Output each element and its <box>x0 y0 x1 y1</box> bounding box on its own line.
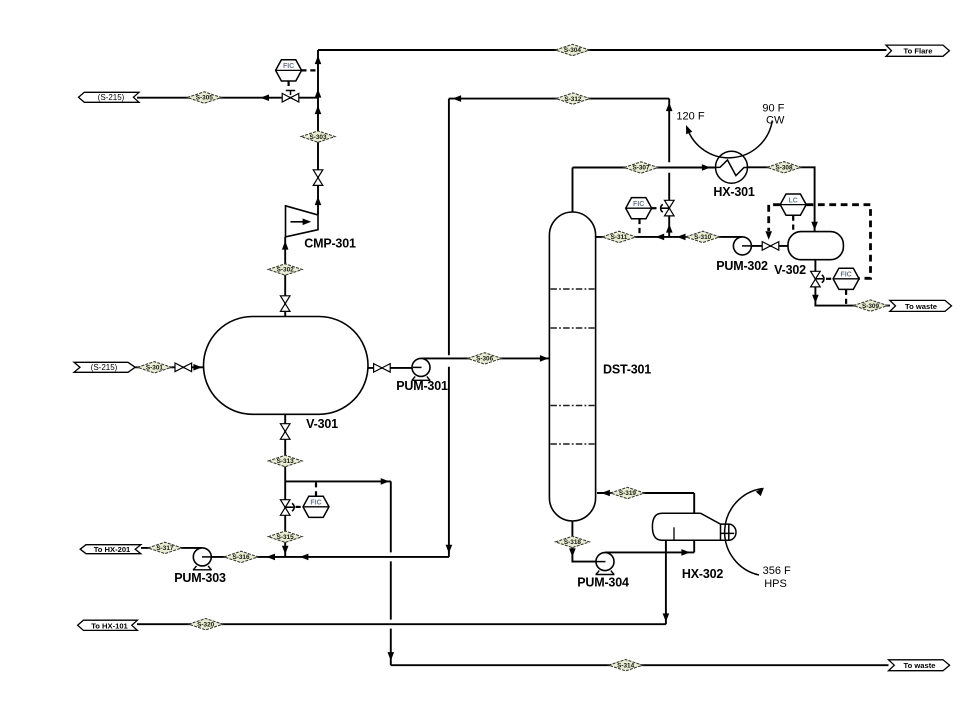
column DST-301 <box>549 212 595 521</box>
open arrow FIC to recycle valve <box>661 204 670 212</box>
arrow down into V-302 <box>811 222 818 231</box>
instrument FIC V-302 drain <box>833 268 859 289</box>
wire S-308 line HX-301 to V-302 <box>747 167 814 232</box>
signal FIC tap on reflux line <box>638 219 640 236</box>
node S-305 <box>187 92 221 103</box>
node S-304 <box>555 44 589 55</box>
svg-text:S-315: S-315 <box>277 534 294 541</box>
svg-text:To HX-101: To HX-101 <box>91 621 128 630</box>
node S-306 <box>468 353 502 364</box>
arrow up above purge junction <box>315 89 322 98</box>
svg-text:S-310: S-310 <box>694 234 711 241</box>
label V-302 <box>774 263 806 277</box>
wire recycle downpipe x=390.8 <box>390 481 392 665</box>
valve on V-301 bottom <box>280 424 290 440</box>
wire S-312 recycle header <box>449 98 669 100</box>
node To HX-101 flag <box>78 620 138 630</box>
node S-320 <box>189 619 223 630</box>
node S-310 <box>686 231 720 242</box>
svg-text:PUM-302: PUM-302 <box>716 259 768 273</box>
valve on bottoms line <box>280 500 290 516</box>
svg-text:PUM-304: PUM-304 <box>577 575 629 589</box>
label PUM-302 <box>716 259 768 273</box>
wire V-302 bottom to waste <box>815 260 890 306</box>
label PUM-303 <box>174 571 226 585</box>
signal LC tap on V-302 <box>792 216 794 231</box>
pump PUM-302 <box>733 237 751 255</box>
svg-text:FIC: FIC <box>840 272 851 279</box>
pump PUM-301 <box>412 358 431 380</box>
arrow left after S-310 <box>677 234 686 241</box>
svg-text:S-303: S-303 <box>309 134 326 141</box>
node S-301 <box>137 362 171 373</box>
wire reboiler riser lower <box>693 540 695 552</box>
node S-302 <box>268 264 302 275</box>
pump PUM-303 <box>193 548 212 570</box>
arrow down below S-318 <box>569 548 576 557</box>
svg-text:To waste: To waste <box>904 661 936 670</box>
wire distillate recycle vertical x=669.2 <box>668 99 670 237</box>
signal LC cascade to FIC <box>807 205 871 279</box>
svg-text:V-301: V-301 <box>306 417 338 431</box>
node To Flare flag <box>886 45 949 56</box>
signal FIC tap on S-309 line <box>845 290 847 305</box>
vessel V-301 <box>204 317 369 415</box>
reboiler HX-302 <box>652 513 736 540</box>
valve on S-303 line <box>313 170 323 186</box>
node S-303 <box>301 131 335 142</box>
arrow down onto S-309 corner <box>812 295 819 304</box>
arrow up below recycle valve <box>666 224 673 233</box>
node S-307 <box>624 162 658 173</box>
arrow left on purge line <box>260 94 269 101</box>
svg-text:To Flare: To Flare <box>904 47 933 56</box>
pump PUM-304 <box>596 553 615 575</box>
arrow right into V-301 <box>193 364 202 371</box>
svg-text:HX-301: HX-301 <box>713 185 754 199</box>
valve on V-301 outlet <box>374 364 391 373</box>
svg-text:DST-301: DST-301 <box>603 363 651 377</box>
wire reboiler riser upper <box>693 493 695 514</box>
valve on V-301 inlet <box>175 363 192 372</box>
node (S-215) feed flag <box>74 362 135 372</box>
signal LC to V-302 inlet valve <box>769 205 780 231</box>
valve on V-302 drain <box>811 271 821 287</box>
node S-317 <box>148 542 182 553</box>
label 356 F <box>763 565 791 577</box>
svg-text:PUM-301: PUM-301 <box>396 379 448 393</box>
svg-text:S-306: S-306 <box>476 356 493 363</box>
node S-314 <box>609 660 643 671</box>
svg-text:S-307: S-307 <box>632 165 649 172</box>
arrow down LC signal onto valve <box>765 231 772 240</box>
instrument FIC bottoms <box>303 496 329 517</box>
valve on V-302 inlet <box>762 242 779 251</box>
svg-text:(S-215): (S-215) <box>98 93 125 102</box>
svg-text:S-313: S-313 <box>277 458 294 465</box>
node S-311 <box>602 231 636 242</box>
instrument FIC purge <box>276 60 302 81</box>
arrow left on reflux line mid <box>656 234 665 241</box>
valve on S-302 line <box>280 296 290 312</box>
svg-text:CMP-301: CMP-301 <box>304 237 356 251</box>
wire V-302 outlet to PUM-302 <box>742 245 788 247</box>
svg-text:LC: LC <box>789 197 798 204</box>
svg-text:S-301: S-301 <box>146 365 163 372</box>
label PUM-304 <box>577 575 629 589</box>
signal FIC to V-302 drain valve <box>826 278 833 280</box>
node S-312 <box>556 93 590 104</box>
svg-text:S-309: S-309 <box>862 303 879 310</box>
signal FIC tap on branch line <box>315 482 317 496</box>
valve on distillate recycle <box>665 200 675 216</box>
arrow right on PUM-304 discharge <box>681 549 690 556</box>
node To HX-201 flag <box>80 545 141 555</box>
svg-text:(S-215): (S-215) <box>91 363 118 372</box>
svg-text:S-318: S-318 <box>564 539 581 546</box>
wire to-flare header <box>318 49 887 51</box>
column trays <box>550 289 594 444</box>
wire S-319 vapor return line <box>597 492 694 494</box>
HX-301 cooling water arc <box>683 121 772 158</box>
node S-318 <box>555 536 589 547</box>
signal FIC to purge valve actuator <box>288 81 290 87</box>
label HPS <box>764 578 787 590</box>
arrow down HX-302 outlet <box>663 613 670 622</box>
DASHED INSTRUMENT SIGNALS <box>289 70 847 507</box>
wire column overhead pipe <box>572 168 574 213</box>
wire PUM-301 discharge / S-306 feed line to column <box>421 357 549 359</box>
node S-309 <box>854 300 888 311</box>
node S-316 <box>224 551 258 562</box>
svg-text:120 F: 120 F <box>676 111 704 123</box>
svg-text:CW: CW <box>766 115 785 127</box>
svg-text:356 F: 356 F <box>763 565 791 577</box>
arrow down S-312 downcomer end <box>446 545 453 554</box>
wire S-307 overhead line to HX-301 <box>573 167 717 169</box>
wire bottoms drop to pump line <box>284 481 286 557</box>
arrow up below purge junction <box>315 106 322 115</box>
node S-313 <box>268 455 302 466</box>
svg-text:FIC: FIC <box>310 500 321 507</box>
wire PUM-303 discharge to HX-201 <box>141 547 202 549</box>
wire main vertical riser x=318 <box>317 50 319 215</box>
svg-text:S-317: S-317 <box>156 545 173 552</box>
svg-text:S-319: S-319 <box>619 490 636 497</box>
svg-text:HPS: HPS <box>764 578 787 590</box>
svg-text:S-302: S-302 <box>277 267 294 274</box>
wire S-312 downcomer x=448.9 <box>448 99 450 557</box>
wire purge line to (S-215) <box>137 97 318 99</box>
arrow right on branch line <box>381 478 390 485</box>
node S-315 <box>268 531 302 542</box>
open arrow FIC to bottoms valve <box>285 503 294 511</box>
HX-302 steam arc <box>725 485 767 575</box>
node To waste flag lower <box>889 660 950 671</box>
arrow left on S-312 header <box>453 95 462 102</box>
label CW <box>766 115 785 127</box>
label PUM-301 <box>396 379 448 393</box>
node S-319 <box>610 487 644 498</box>
node To waste flag upper <box>890 300 952 311</box>
wire column bottoms to PUM-304 <box>572 521 605 562</box>
svg-text:S-320: S-320 <box>197 621 214 628</box>
arrow up below flare corner <box>315 56 322 65</box>
svg-text:FIC: FIC <box>633 201 644 208</box>
label 90 F <box>762 103 784 115</box>
svg-text:HX-302: HX-302 <box>682 567 723 581</box>
signal FIC to distillate recycle valve <box>651 207 659 209</box>
svg-text:S-305: S-305 <box>196 95 213 102</box>
signal FIC to bottoms valve dash <box>296 506 304 508</box>
label 120 F <box>676 111 704 123</box>
arrow left into column S-319 <box>601 490 610 497</box>
arrow up into S-312 header <box>666 103 673 112</box>
wire compressor suction from V-301 top <box>284 237 286 317</box>
wire reflux line S-311 S-310 <box>596 236 742 238</box>
wire branch to recycle downpipe <box>285 480 391 482</box>
wire PUM-304 discharge <box>605 551 694 553</box>
signal FIC to purge vertical line <box>301 69 316 71</box>
heat exchanger HX-301 <box>715 151 747 183</box>
ARROWS <box>193 56 824 661</box>
vessel V-302 <box>788 232 843 260</box>
arrow left on bottoms line east <box>300 554 309 561</box>
arrow up above S-303 valve gap <box>315 197 322 206</box>
wire bottoms line to PUM-303 <box>202 556 449 558</box>
wire S-320 line to HX-101 <box>137 623 666 625</box>
svg-text:S-316: S-316 <box>232 554 249 561</box>
svg-text:S-311: S-311 <box>611 234 628 241</box>
arrow down onto S-314 corner <box>388 652 395 661</box>
svg-text:V-302: V-302 <box>774 263 806 277</box>
compressor CMP-301 <box>286 206 319 237</box>
label V-301 <box>306 417 338 431</box>
arrow left on bottoms line <box>266 554 275 561</box>
arrow right into HX-301 <box>702 164 711 171</box>
arrow up below compressor <box>282 241 289 250</box>
wire HX-302 liquid outlet <box>665 540 667 624</box>
arrow right into column feed <box>540 355 549 362</box>
wire V-301 outlet to PUM-301 <box>368 367 421 369</box>
svg-text:PUM-303: PUM-303 <box>174 571 226 585</box>
arrow down S-315 into bottoms line <box>282 546 289 555</box>
label HX-302 <box>682 567 723 581</box>
arrow left into column reflux <box>603 234 612 241</box>
wire feed inlet to V-301 <box>135 366 203 368</box>
instrument FIC reflux <box>626 198 652 219</box>
node (S-215) purge flag <box>79 92 140 102</box>
svg-text:90 F: 90 F <box>762 103 784 115</box>
svg-text:S-304: S-304 <box>564 47 581 54</box>
svg-text:S-314: S-314 <box>617 662 634 669</box>
svg-text:S-312: S-312 <box>564 96 581 103</box>
instrument LC V-302 <box>780 194 806 215</box>
svg-text:To waste: To waste <box>905 302 937 311</box>
wire V-301 bottom drop <box>284 414 286 481</box>
label DST-301 <box>603 363 651 377</box>
control valve on purge line <box>282 91 299 102</box>
node S-308 <box>767 162 801 173</box>
label HX-301 <box>713 185 754 199</box>
svg-text:FIC: FIC <box>283 63 294 70</box>
open arrow FIC to V-302 drain valve <box>815 275 824 283</box>
svg-text:S-308: S-308 <box>775 165 792 172</box>
wire S-314 bottom waste line <box>391 664 889 666</box>
label CMP-301 <box>304 237 356 251</box>
svg-text:To HX-201: To HX-201 <box>94 545 131 554</box>
